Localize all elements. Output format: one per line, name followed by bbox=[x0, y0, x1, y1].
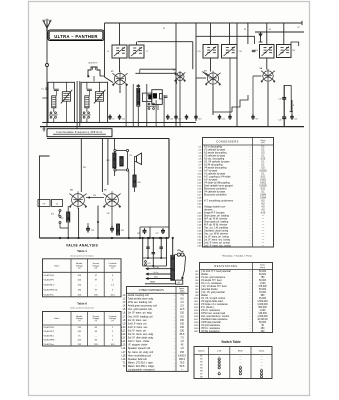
wire mid links bbox=[140, 227, 169, 238]
svg-text:3rd I.F. trans. aux. wdg.: 3rd I.F. trans. aux. wdg. bbox=[128, 333, 154, 336]
svg-text:150: 150 bbox=[180, 326, 185, 329]
capacitor bypass C17 bbox=[251, 115, 258, 121]
svg-text:C16: C16 bbox=[292, 50, 295, 52]
svg-text:900.5: 900.5 bbox=[179, 358, 186, 361]
IFT3 can L12 bbox=[260, 45, 275, 59]
svg-text:Switch: Switch bbox=[198, 350, 205, 353]
capacitor bypass C18 bbox=[194, 115, 201, 121]
svg-text:(Data socket at minimum): (Data socket at minimum) bbox=[71, 254, 94, 257]
wire V1 top bbox=[119, 58, 121, 72]
mains input box bbox=[176, 280, 183, 284]
svg-text:1,000: 1,000 bbox=[260, 283, 266, 285]
capacitor C10 osc bbox=[165, 96, 168, 97]
svg-text:R13: R13 bbox=[106, 160, 109, 162]
svg-text:1,000,000: 1,000,000 bbox=[257, 316, 268, 318]
valve V2 triode bbox=[175, 71, 186, 82]
svg-text:V1 AC/TH1: V1 AC/TH1 bbox=[44, 274, 55, 277]
wire V3 top bbox=[266, 58, 268, 70]
svg-text:C9: C9 bbox=[112, 119, 114, 121]
svg-text:S8: S8 bbox=[244, 29, 246, 31]
wire speaker down bbox=[134, 162, 136, 176]
svg-text:—: — bbox=[261, 362, 263, 364]
resistor R14 in box bbox=[120, 157, 123, 167]
svg-text:0.0003: 0.0003 bbox=[259, 170, 267, 172]
capacitor C31 bbox=[146, 247, 150, 248]
svg-text:50,000: 50,000 bbox=[259, 280, 267, 282]
svg-text:—: — bbox=[239, 362, 241, 364]
svg-text:RESISTANCES: RESISTANCES bbox=[215, 265, 238, 268]
capacitor C27 bbox=[155, 228, 165, 235]
wire ps v3 bbox=[152, 238, 154, 266]
svg-text:0.001: 0.001 bbox=[260, 182, 266, 184]
pickup terminal box PU bbox=[38, 200, 63, 207]
wire L corner bbox=[40, 156, 50, 238]
svg-text:Osc. M.W. loading coil: Osc. M.W. loading coil bbox=[128, 315, 153, 318]
svg-text:V6 filts resistance: V6 filts resistance bbox=[201, 330, 220, 333]
wire drop x229 bbox=[229, 23, 231, 44]
svg-text:Value: Value bbox=[180, 290, 184, 292]
svg-text:Full l.f. trans. choke: Full l.f. trans. choke bbox=[128, 340, 150, 343]
svg-text:(mF): (mF) bbox=[261, 142, 265, 144]
svg-text:C26: C26 bbox=[93, 195, 96, 197]
wire drop x105 bbox=[105, 23, 114, 83]
wire drop x288 bbox=[284, 23, 299, 46]
svg-text:85.5: 85.5 bbox=[180, 333, 185, 336]
svg-text:I.F. stopper choke: I.F. stopper choke bbox=[128, 344, 148, 347]
antenna A1 bbox=[43, 19, 51, 31]
svg-text:4v. 1a.: 4v. 1a. bbox=[154, 272, 159, 274]
capacitor C19 bbox=[278, 85, 286, 117]
wire V1 bottom bbox=[119, 86, 121, 93]
resistor R15 bbox=[133, 175, 141, 192]
svg-text:470,000: 470,000 bbox=[258, 286, 267, 288]
svg-text:Total aerials loose wdg.: Total aerials loose wdg. bbox=[128, 298, 154, 301]
wire c29 stub bbox=[87, 223, 89, 226]
svg-text:1,000: 1,000 bbox=[260, 310, 266, 312]
valve V2 pins bbox=[177, 80, 181, 127]
capacitor C28 bbox=[137, 228, 147, 235]
svg-text:—: — bbox=[261, 356, 263, 358]
capacitor bypass C22 bbox=[290, 115, 297, 121]
wire grid 69 bbox=[140, 69, 177, 73]
valve V5 AC/Pen bbox=[103, 191, 120, 209]
capacitor bypass C16 bbox=[166, 115, 173, 121]
svg-text:50.5: 50.5 bbox=[180, 365, 185, 368]
svg-text:Speaker speech coil: Speaker speech coil bbox=[128, 347, 151, 350]
wire aerial down 2 bbox=[46, 67, 48, 127]
resistor R13 bbox=[106, 139, 116, 177]
svg-text:2nd I.F. trans. sec. tuning: 2nd I.F. trans. sec. tuning bbox=[204, 244, 231, 247]
svg-text:Valve: Valve bbox=[54, 265, 60, 267]
svg-text:150: 150 bbox=[180, 319, 185, 322]
switch S17 mains bbox=[145, 261, 151, 266]
wire x128 drop bbox=[128, 171, 130, 238]
svg-text:10,000.00: 10,000.00 bbox=[257, 319, 268, 321]
svg-text:S17: S17 bbox=[148, 263, 151, 265]
svg-text:78.5: 78.5 bbox=[180, 361, 185, 364]
svg-text:450: 450 bbox=[180, 351, 185, 354]
IFT2 can L10 bbox=[203, 45, 218, 59]
capacitor C30 bbox=[107, 208, 115, 233]
svg-text:—: — bbox=[218, 376, 220, 378]
svg-text:L15: L15 bbox=[129, 155, 132, 157]
capacitor bypass c4 bbox=[185, 115, 188, 120]
wire V3 grid bbox=[253, 75, 262, 77]
wire drop x210 bbox=[210, 23, 212, 44]
table resistances bbox=[194, 263, 272, 333]
capacitor C29 bbox=[86, 226, 94, 233]
svg-text:C30: C30 bbox=[107, 213, 110, 215]
V3 grid arrow bbox=[203, 72, 209, 77]
svg-text:VALVE ANALYSIS: VALVE ANALYSIS bbox=[66, 243, 98, 247]
wire grid 73 bbox=[135, 73, 175, 75]
valve V4 AC/HL bbox=[69, 191, 86, 209]
svg-text:0.001: 0.001 bbox=[260, 179, 266, 181]
title box ULTRA PANTHER bbox=[48, 30, 104, 41]
svg-text:Gram: Gram bbox=[259, 350, 265, 353]
wire x253 drop bbox=[252, 76, 254, 115]
svg-text:12.5: 12.5 bbox=[180, 308, 185, 311]
svg-text:3rd I.F. dble diode wdg.: 3rd I.F. dble diode wdg. bbox=[128, 337, 154, 340]
svg-text:4v. 2.5a.: 4v. 2.5a. bbox=[153, 267, 160, 269]
svg-text:L6: L6 bbox=[107, 51, 109, 53]
capacitor bypass C10 bbox=[118, 115, 125, 121]
svg-text:C17: C17 bbox=[178, 119, 181, 121]
capacitor C33 bbox=[152, 253, 156, 254]
svg-text:C14: C14 bbox=[222, 119, 225, 121]
wire chassis bus2 bbox=[40, 237, 170, 239]
svg-text:1,500,000: 1,500,000 bbox=[257, 301, 268, 303]
IF frequency label box bbox=[47, 129, 112, 137]
svg-text:Table 1: Table 1 bbox=[77, 249, 87, 253]
svg-text:2nd I.F. trans. sec.: 2nd I.F. trans. sec. bbox=[128, 326, 149, 329]
wire pu link bbox=[60, 224, 68, 229]
transformer T1 winding bar bbox=[171, 255, 175, 280]
svg-text:M.W.: M.W. bbox=[238, 351, 243, 353]
svg-text:(Data socket of maximum): (Data socket of maximum) bbox=[70, 306, 94, 309]
svg-text:Mains: 210-250 v. wdgs.: Mains: 210-250 v. wdgs. bbox=[128, 365, 155, 368]
IFT3 can L13 bbox=[277, 45, 292, 58]
svg-text:150: 150 bbox=[180, 312, 185, 315]
svg-text:70,000: 70,000 bbox=[259, 292, 267, 294]
svg-text:Table II: Table II bbox=[77, 301, 87, 305]
svg-text:—: — bbox=[239, 365, 241, 367]
ground chassis bbox=[43, 127, 46, 132]
svg-text:150: 150 bbox=[180, 329, 185, 332]
resistor R17 vol bbox=[60, 206, 69, 238]
wire mains right bbox=[182, 255, 186, 280]
switch S5 contacts bbox=[147, 103, 156, 109]
svg-text:Intermediate Frequency 465 Kc/: Intermediate Frequency 465 Kc/s bbox=[56, 131, 103, 134]
wire x219 drop bbox=[219, 58, 221, 115]
capacitor C32 bbox=[159, 247, 163, 248]
wire c20 branch bbox=[284, 85, 295, 111]
wire ps v1 bbox=[142, 238, 144, 266]
capacitor bypass C14 bbox=[218, 115, 225, 121]
blue spot adaptor J1 bbox=[88, 63, 101, 78]
table other components bbox=[121, 287, 188, 372]
svg-text:50,000: 50,000 bbox=[259, 271, 267, 273]
svg-text:V2 AC/VP1: V2 AC/VP1 bbox=[44, 330, 55, 333]
screened coil unit L1 L2 box bbox=[48, 82, 75, 122]
wire V4 cathode bbox=[78, 208, 80, 238]
wire drop x102 bbox=[101, 139, 103, 193]
svg-text:0.004: 0.004 bbox=[260, 194, 266, 196]
wire top bus bbox=[105, 22, 303, 24]
svg-text:C22: C22 bbox=[294, 119, 297, 121]
svg-text:HT: HT bbox=[298, 27, 300, 29]
svg-text:50,000: 50,000 bbox=[259, 289, 267, 291]
wire grid line bbox=[196, 36, 255, 44]
wire V2 top bbox=[210, 58, 212, 72]
svg-text:V2 AC/VP1: V2 AC/VP1 bbox=[44, 279, 55, 282]
svg-text:C29: C29 bbox=[91, 230, 94, 232]
wire ps v4 bbox=[160, 238, 162, 258]
svg-text:5,450.5: 5,450.5 bbox=[178, 354, 187, 357]
svg-text:150: 150 bbox=[180, 322, 185, 325]
wire drop x108 bbox=[107, 139, 109, 186]
wire group1 left bbox=[42, 97, 48, 99]
svg-text:(v): (v) bbox=[111, 320, 114, 322]
wire x126 drop bbox=[125, 84, 127, 127]
svg-text:0.05: 0.05 bbox=[261, 158, 266, 160]
wire t1 top stub bbox=[172, 238, 174, 255]
valve V3 AC/HL bbox=[261, 69, 275, 83]
svg-text:HT: HT bbox=[163, 28, 165, 30]
svg-text:—: — bbox=[239, 356, 241, 358]
svg-text:S15: S15 bbox=[51, 214, 54, 216]
IF transformer L8 L9 can bbox=[129, 45, 144, 58]
svg-text:C16: C16 bbox=[170, 119, 173, 121]
svg-text:V1 AC/TH1: V1 AC/TH1 bbox=[44, 326, 55, 329]
wire drop x262 bbox=[266, 23, 268, 45]
svg-text:0.004: 0.004 bbox=[260, 197, 266, 199]
svg-text:1st I.F. trans. pri. wdg.: 1st I.F. trans. pri. wdg. bbox=[128, 312, 153, 315]
svg-text:R16: R16 bbox=[138, 182, 141, 184]
svg-text:V4 AC/PEN (1): V4 AC/PEN (1) bbox=[44, 289, 58, 292]
svg-text:Hum neutralising coil: Hum neutralising coil bbox=[128, 354, 152, 357]
capacitor bypass C17 bbox=[174, 115, 181, 121]
svg-text:45,000: 45,000 bbox=[259, 298, 267, 300]
svg-text:Aerial gram accessory coil: Aerial gram accessory coil bbox=[128, 305, 158, 308]
svg-text:500,000: 500,000 bbox=[258, 307, 267, 309]
svg-text:Sp. trans. pri. wdg. coil: Sp. trans. pri. wdg. coil bbox=[128, 351, 154, 354]
svg-text:V5 AC/Pen.: V5 AC/Pen. bbox=[44, 343, 55, 346]
svg-text:—: — bbox=[261, 359, 263, 361]
svg-text:0.05: 0.05 bbox=[261, 212, 266, 214]
svg-text:0.01: 0.01 bbox=[261, 176, 266, 178]
wire bus2 drop bbox=[168, 139, 170, 239]
svg-text:(v): (v) bbox=[78, 320, 81, 322]
table condensers bbox=[197, 138, 273, 248]
wire V3 bottom bbox=[267, 83, 269, 127]
junction ps dots bbox=[142, 237, 174, 239]
svg-text:ULTRA – PANTHER: ULTRA – PANTHER bbox=[54, 34, 98, 39]
switch box S16 bbox=[114, 149, 129, 171]
capacitor bypass C9 bbox=[108, 115, 114, 121]
svg-text:C17: C17 bbox=[255, 119, 258, 121]
svg-text:C15: C15 bbox=[255, 50, 258, 52]
svg-text:C19: C19 bbox=[278, 98, 281, 100]
resistor R5 cathode bbox=[137, 88, 140, 106]
wire R5 bbox=[137, 84, 141, 127]
wire staircase bbox=[232, 95, 248, 112]
svg-text:Loudspeaker, energised: Loudspeaker, energised bbox=[128, 369, 155, 372]
svg-text:Aerial coupling coil: Aerial coupling coil bbox=[128, 294, 149, 297]
wire V2 grid bbox=[196, 77, 206, 79]
svg-text:350v.: 350v. bbox=[154, 277, 159, 279]
svg-text:—: — bbox=[218, 356, 220, 358]
svg-text:Valve: Valve bbox=[54, 318, 60, 320]
wire x230 drop bbox=[229, 58, 231, 115]
svg-text:C20: C20 bbox=[278, 120, 281, 122]
svg-text:Electrones controlled: Electrones controlled bbox=[204, 193, 227, 196]
svg-text:3rd I.F. trans. pri.: 3rd I.F. trans. pri. bbox=[128, 329, 147, 332]
switch S15 contacts bbox=[51, 210, 61, 224]
wire drop x196 bbox=[195, 23, 197, 121]
svg-text:—: — bbox=[239, 376, 241, 378]
svg-text:—: — bbox=[261, 368, 263, 370]
svg-text:1,000,000: 1,000,000 bbox=[257, 304, 268, 306]
svg-text:(v): (v) bbox=[111, 267, 114, 269]
IFT2 can L11 bbox=[222, 45, 238, 59]
capacitor C20 bbox=[278, 117, 286, 127]
svg-text:R17: R17 bbox=[60, 218, 63, 220]
svg-text:V3 AC/HL1: V3 AC/HL1 bbox=[44, 334, 55, 337]
svg-text:0.01: 0.01 bbox=[261, 188, 266, 190]
svg-text:0.0005: 0.0005 bbox=[259, 185, 267, 187]
wire ps v2 bbox=[147, 238, 149, 258]
wire V5 cathode bbox=[97, 206, 98, 239]
svg-text:M.W. aer. loading coil: M.W. aer. loading coil bbox=[128, 301, 152, 304]
svg-text:C27: C27 bbox=[155, 233, 158, 235]
wire x133 drop bbox=[132, 84, 134, 127]
wire ps h2 bbox=[143, 265, 167, 267]
wire drop x119 bbox=[119, 23, 121, 45]
svg-text:Switch Table: Switch Table bbox=[221, 340, 240, 344]
wire drop x248 bbox=[247, 22, 249, 44]
IF transformer L6 L7 can bbox=[112, 45, 127, 58]
wire V4 V5 link bbox=[86, 197, 104, 198]
table switch bbox=[194, 347, 272, 379]
wire osc links bbox=[147, 84, 164, 127]
svg-text:1st I.F. trans. sec.: 1st I.F. trans. sec. bbox=[128, 319, 148, 322]
svg-text:—: — bbox=[261, 365, 263, 367]
table valve analysis 2 bbox=[43, 312, 122, 347]
svg-text:OTHER COMPONENTS: OTHER COMPONENTS bbox=[139, 290, 165, 292]
svg-text:(v): (v) bbox=[95, 320, 98, 322]
svg-text:(v): (v) bbox=[78, 267, 81, 269]
svg-text:R21: R21 bbox=[121, 230, 124, 232]
wire ps h1 bbox=[143, 257, 167, 259]
svg-text:R12: R12 bbox=[83, 167, 86, 169]
svg-text:* Electrolytic. † Variable.: * Electrolytic. † Variable. ‡ Preset. bbox=[221, 254, 253, 257]
svg-text:—: — bbox=[239, 359, 241, 361]
svg-text:CONDENSERS: CONDENSERS bbox=[216, 140, 239, 143]
svg-text:C28: C28 bbox=[137, 233, 140, 235]
grid cap arrow bbox=[259, 32, 263, 42]
wire mains bottom bbox=[145, 283, 176, 285]
wire drop x176 bbox=[175, 23, 177, 127]
wire avc rail bbox=[255, 31, 304, 33]
wire jack feed bbox=[94, 76, 105, 81]
table valve analysis 1 bbox=[43, 259, 122, 297]
svg-text:50,000: 50,000 bbox=[259, 274, 267, 276]
svg-text:BLUE SPOT: BLUE SPOT bbox=[89, 63, 98, 65]
svg-text:Mains: 175-210 v. taps: Mains: 175-210 v. taps bbox=[128, 361, 154, 364]
wire drop x136 bbox=[137, 42, 193, 69]
svg-text:L7: L7 bbox=[146, 51, 148, 53]
svg-text:(ohms): (ohms) bbox=[260, 267, 266, 269]
capacitor C15b bbox=[252, 50, 256, 51]
wire v2 anode link bbox=[213, 111, 232, 113]
valve V2 AC/VP1 bbox=[205, 71, 220, 86]
wire inter-group b bbox=[79, 81, 81, 127]
wire winding taps bbox=[146, 268, 171, 280]
screened coil unit L3 L4 box bbox=[81, 82, 108, 122]
capacitor bypass c7 bbox=[228, 115, 231, 120]
wire drop x81 bbox=[80, 139, 82, 193]
svg-text:130,000: 130,000 bbox=[258, 313, 267, 315]
wire drop x237 bbox=[236, 23, 238, 127]
wire ps v5 bbox=[166, 238, 168, 266]
svg-text:V5 AC/Pen.: V5 AC/Pen. bbox=[44, 293, 55, 296]
svg-text:(v): (v) bbox=[95, 267, 98, 269]
resistor R29 bbox=[117, 224, 125, 235]
wire T junction IF bbox=[76, 127, 78, 129]
wire aerial down bbox=[46, 30, 48, 63]
wire chassis bus bbox=[40, 123, 304, 127]
svg-text:C14: C14 bbox=[239, 51, 242, 53]
svg-text:S9: S9 bbox=[269, 29, 271, 31]
capacitor C1 bbox=[41, 88, 49, 91]
oscillator coil L5 box bbox=[152, 90, 163, 110]
svg-text:H.T. smoothing condensers: H.T. smoothing condensers bbox=[204, 199, 234, 202]
svg-text:C13: C13 bbox=[197, 51, 200, 53]
svg-text:—: — bbox=[218, 370, 220, 372]
svg-text:V3 AC/HL1 *: V3 AC/HL1 * bbox=[44, 284, 56, 287]
lamp pilot LP1 bbox=[175, 250, 184, 256]
wire x292 drop bbox=[291, 100, 293, 115]
wire V2 bottom bbox=[212, 86, 214, 116]
svg-text:L.W.: L.W. bbox=[217, 351, 222, 353]
aerial plug socket bbox=[46, 64, 49, 67]
svg-text:2nd I.F. trans. pri.: 2nd I.F. trans. pri. bbox=[128, 322, 148, 325]
svg-text:V4 AC/PEN: V4 AC/PEN bbox=[44, 339, 55, 342]
wire right rail bbox=[301, 21, 303, 25]
svg-text:50,000: 50,000 bbox=[259, 322, 267, 324]
valve V1 AC/TH1 bbox=[112, 71, 127, 86]
wire bus2 bbox=[47, 138, 169, 140]
osc coupling loop bbox=[142, 93, 151, 101]
svg-text:C18: C18 bbox=[198, 119, 201, 121]
junction ps dots2 bbox=[147, 257, 162, 266]
wire inter-group a bbox=[76, 81, 78, 127]
svg-text:Speaker field coil: Speaker field coil bbox=[128, 358, 147, 361]
svg-text:C10: C10 bbox=[122, 119, 125, 121]
speaker tweeter bbox=[135, 153, 142, 165]
svg-text:Osc. grid reaction coil,: Osc. grid reaction coil, bbox=[128, 308, 153, 311]
